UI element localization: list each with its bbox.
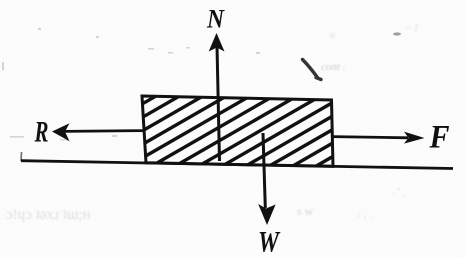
svg-text:N: N: [206, 5, 225, 34]
ground surface line: [21, 161, 453, 169]
force arrow W head: [258, 204, 275, 225]
svg-text:F: F: [429, 120, 450, 156]
svg-text:W: W: [258, 226, 281, 257]
svg-text:: , .: : , .: [357, 206, 372, 220]
svg-text:u: u: [330, 30, 335, 41]
force arrow R head: [52, 123, 70, 141]
faint marks s w (mid bottom): [297, 204, 372, 220]
faint marks top-right corner: [392, 23, 418, 198]
dark pen stroke diagonal (top middle-right): [303, 60, 322, 80]
force arrow N head: [209, 33, 225, 52]
force arrow F shaft: [332, 137, 408, 138]
force arrow R shaft: [64, 129, 145, 133]
force arrow N shaft: [217, 46, 220, 161]
svg-text:ɔ!ɥɔ ʇǝxɹ ʇɯ;ʜ: ɔ!ɥɔ ʇǝxɹ ʇɯ;ʜ: [6, 207, 91, 223]
svg-text:cont .: cont .: [321, 61, 345, 73]
force arrow W shaft: [263, 133, 265, 208]
svg-text:R: R: [34, 116, 49, 149]
small gray dash right: [393, 32, 401, 35]
force arrow F head: [404, 132, 425, 144]
small tick at ground line left end: [20, 152, 23, 161]
faint 'cont' squiggle: [321, 30, 345, 73]
svg-text:. '' ,: . '' ,: [392, 187, 406, 198]
block hatching (diagonal fill): [32, 87, 454, 168]
faint bleed-through text bottom-left: [6, 207, 91, 223]
svg-text:s w: s w: [297, 204, 314, 218]
faint specks: [2, 28, 260, 140]
svg-text:~ J: ~ J: [406, 23, 418, 34]
block outline: [142, 96, 333, 166]
